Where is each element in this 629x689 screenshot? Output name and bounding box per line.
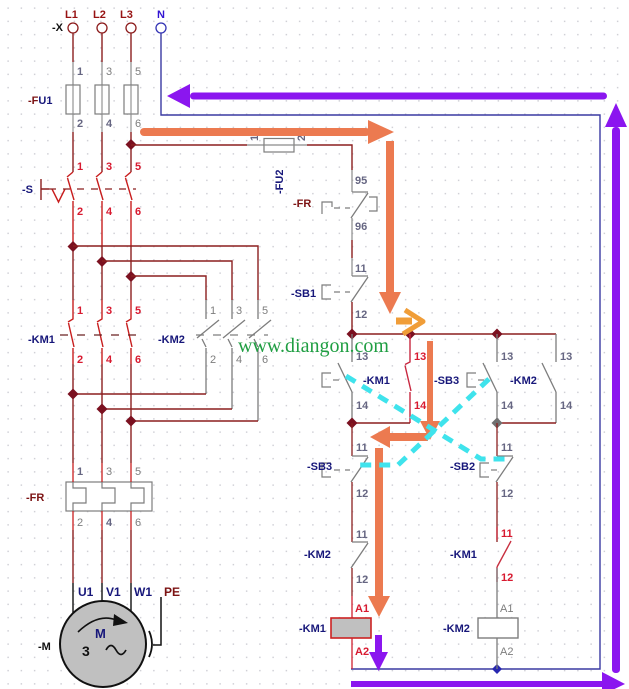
flow arrow orange vertical long [368, 448, 390, 617]
svg-text:6: 6 [135, 517, 141, 529]
contact KM2 aux NC interlock [351, 542, 368, 568]
wire FR to SB1 [351, 218, 353, 240]
svg-text:4: 4 [106, 354, 113, 366]
svg-text:-KM2: -KM2 [304, 549, 331, 561]
contact KM1 aux NC interlock red [497, 527, 511, 582]
terminal L3 [120, 9, 136, 33]
svg-text:96: 96 [355, 221, 367, 233]
terminal N [156, 9, 166, 33]
pushbutton SB3 NC stop [322, 423, 368, 482]
svg-text:-KM2: -KM2 [443, 623, 470, 635]
wire KM1 NC to coil KM2 [496, 568, 498, 618]
switch S handle [41, 179, 65, 202]
wire KM2 pole1 bottom to L1 line [73, 393, 206, 395]
svg-text:1: 1 [210, 305, 216, 317]
svg-text:13: 13 [414, 351, 426, 363]
svg-text:13: 13 [501, 351, 513, 363]
svg-text:-SB2: -SB2 [450, 461, 475, 473]
svg-text:2: 2 [77, 118, 83, 130]
contact KM2 aux NO (13-14) [542, 334, 573, 423]
svg-text:6: 6 [135, 118, 141, 130]
wire L2 terminal to fuse [101, 33, 103, 62]
svg-text:-FR: -FR [26, 492, 44, 504]
wire L3 terminal to fuse [130, 33, 132, 62]
wire PE to motor frame [153, 597, 161, 645]
wire KM2 coil to N line [496, 638, 498, 669]
svg-text:L2: L2 [93, 9, 106, 21]
svg-text:12: 12 [355, 309, 367, 321]
svg-text:A1: A1 [500, 603, 513, 615]
fuse FU1 pole 2 [95, 66, 113, 130]
flow arrow purple right vertical [605, 103, 627, 673]
flow arrow orange vertical upper [379, 141, 401, 314]
node branch to KM2 line L2 [97, 256, 108, 267]
svg-text:A1: A1 [355, 603, 369, 615]
svg-text:-SB1: -SB1 [291, 288, 316, 300]
svg-text:-KM1: -KM1 [28, 334, 55, 346]
node branch to KM2 line L1 [68, 241, 79, 252]
node L2 below KM1 [97, 404, 108, 415]
svg-text:W1: W1 [134, 585, 152, 599]
thermal relay FR pole 1 heater [73, 463, 86, 530]
motor frame earth arc [149, 631, 152, 657]
contactor KM2 main pole 2 open [223, 300, 245, 409]
svg-text:N: N [157, 9, 165, 21]
motor M circle [60, 601, 146, 687]
interlock dashed cyan SB3 cross [354, 379, 489, 465]
svg-text:5: 5 [262, 305, 268, 317]
svg-text:-S: -S [22, 184, 33, 196]
pushbutton SB3 NO start (13-14) [467, 334, 514, 423]
contactor KM1 main pole 2 [97, 300, 113, 366]
node bus KM1 aux [405, 329, 416, 340]
contactor KM2 main pole 3 open [249, 300, 271, 421]
wire bottom of SB2/KM1 pair [352, 422, 410, 424]
svg-text:14: 14 [414, 400, 427, 412]
wire S to KM1 contacts [73, 246, 131, 300]
svg-text:-SB3: -SB3 [434, 375, 459, 387]
coil KM2 [478, 618, 518, 638]
svg-text:L1: L1 [65, 9, 78, 21]
svg-text:4: 4 [106, 517, 113, 529]
svg-text:-FU2: -FU2 [274, 170, 286, 194]
contactor KM2 main pole 1 open [197, 300, 219, 394]
wire L2 branch to KM2 pole 3 top [102, 261, 232, 300]
svg-text:-KM2: -KM2 [510, 375, 537, 387]
svg-text:3: 3 [106, 66, 112, 78]
interlock dashed cyan SB2 cross [346, 376, 506, 459]
wire KM2 NC to coil KM1 [351, 568, 353, 596]
svg-text:3: 3 [82, 643, 90, 659]
node L1 below KM1 [68, 389, 79, 400]
svg-text:6: 6 [135, 206, 141, 218]
wire SB2 to KM1 NC [496, 482, 498, 542]
flow arrow orange horizontal left [370, 426, 428, 448]
contactor KM1 main pole 3 [126, 300, 141, 366]
wire control bus top [352, 333, 556, 335]
terminal L2 [93, 9, 107, 33]
switch S pole 2 [96, 161, 113, 246]
svg-text:1: 1 [77, 161, 83, 173]
svg-text:1: 1 [77, 305, 83, 317]
node bus left [347, 329, 358, 340]
pushbutton SB1 NC [322, 276, 368, 302]
svg-text:3: 3 [106, 305, 112, 317]
svg-text:-KM1: -KM1 [450, 549, 477, 561]
wire KM1 coil to N line [351, 638, 353, 669]
wire fuse to switch S (three phases) [73, 114, 131, 132]
node branch to KM2 line L3 [126, 271, 137, 282]
thermal relay FR box [66, 482, 152, 511]
svg-text:13: 13 [560, 351, 572, 363]
svg-text:-FU1: -FU1 [28, 95, 52, 107]
svg-text:3: 3 [236, 305, 242, 317]
relay contact FR 95-96 NC [322, 192, 377, 218]
fuse FU1 pole 3 [124, 66, 141, 130]
wire KM2 pole3 bottom to L3 line [131, 420, 258, 422]
contactor KM1 linkage dashed [60, 334, 140, 336]
flow arrow purple bottom horizontal [351, 672, 625, 689]
switch S pole 3 [125, 161, 141, 246]
svg-text:4: 4 [106, 206, 113, 218]
svg-text:A2: A2 [355, 646, 369, 658]
svg-text:11: 11 [501, 528, 513, 540]
svg-text:14: 14 [356, 400, 369, 412]
svg-text:5: 5 [135, 161, 141, 173]
svg-text:1: 1 [77, 466, 83, 478]
wire L1 terminal to fuse [72, 33, 74, 62]
node L3 below KM1 [126, 416, 137, 427]
wire FR to motor (three phases) [73, 530, 131, 583]
svg-text:-X: -X [52, 22, 64, 34]
svg-text:2: 2 [77, 354, 83, 366]
wire FU2 to FR contact [307, 145, 352, 170]
thermal relay FR pole 2 heater [102, 463, 115, 530]
svg-text:12: 12 [356, 574, 368, 586]
contact KM1 aux NO closed (13-14) [405, 334, 427, 423]
svg-text:V1: V1 [106, 585, 121, 599]
flow arrow amber chevron right [396, 310, 423, 334]
switch S linkage dashed [49, 188, 136, 190]
svg-text:-KM2: -KM2 [158, 334, 185, 346]
svg-text:14: 14 [501, 400, 514, 412]
switch S pole 1 [67, 161, 83, 246]
svg-text:www.diangon.com: www.diangon.com [238, 335, 389, 357]
motor rotation arrow [78, 618, 116, 632]
node below SB3 gray [492, 418, 503, 429]
wire KM1 bottom to FR (three phases) [73, 364, 131, 463]
wire SB3 to KM2 NC [351, 482, 353, 542]
svg-text:U1: U1 [78, 585, 94, 599]
svg-text:L3: L3 [120, 9, 133, 21]
svg-text:11: 11 [356, 442, 368, 454]
motor tilde symbol [106, 646, 126, 655]
svg-text:5: 5 [135, 66, 141, 78]
svg-text:2: 2 [210, 354, 216, 366]
wire KM2 pole2 bottom to L2 line [102, 408, 232, 410]
svg-text:3: 3 [106, 161, 112, 173]
svg-text:12: 12 [356, 488, 368, 500]
wire L3 branch to KM2 pole 1 top [131, 276, 206, 300]
svg-text:11: 11 [501, 442, 513, 454]
wire L1 branch to KM2 pole 5 top [73, 246, 258, 300]
svg-text:11: 11 [355, 263, 367, 275]
flow arrow purple top horizontal [167, 84, 607, 108]
svg-text:-FR: -FR [293, 198, 311, 210]
svg-text:14: 14 [560, 400, 573, 412]
node bus SB3 [492, 329, 503, 340]
thermal relay FR pole 3 heater [131, 463, 144, 530]
svg-text:M: M [95, 626, 106, 641]
wire neutral N blue run [161, 33, 600, 669]
svg-text:PE: PE [164, 585, 180, 599]
svg-text:1: 1 [77, 66, 83, 78]
flow arrow orange vertical mid [420, 341, 440, 440]
flow arrow orange horizontal top [140, 120, 394, 144]
svg-text:95: 95 [355, 175, 367, 187]
wire L3 tap to fuse FU2 [131, 144, 247, 146]
node blue junction on N bottom wire [492, 664, 502, 674]
terminal L1 [65, 9, 78, 33]
svg-text:4: 4 [106, 118, 113, 130]
node below SB2 [347, 418, 358, 429]
svg-text:2: 2 [77, 206, 83, 218]
contactor KM1 main pole 1 [68, 300, 83, 366]
svg-text:5: 5 [135, 305, 141, 317]
svg-text:12: 12 [501, 572, 513, 584]
coil KM1 [331, 618, 371, 638]
svg-text:-SB3: -SB3 [307, 461, 332, 473]
svg-text:11: 11 [356, 529, 368, 541]
wire bottom of SB3/KM2 pair [497, 422, 556, 424]
svg-text:2: 2 [77, 517, 83, 529]
svg-text:5: 5 [135, 466, 141, 478]
svg-text:12: 12 [501, 488, 513, 500]
svg-text:6: 6 [135, 354, 141, 366]
pushbutton SB2 NO start (13-14) [322, 334, 369, 423]
fuse FU1 pole 1 [66, 66, 83, 130]
svg-text:-KM1: -KM1 [299, 623, 326, 635]
svg-text:-KM1: -KM1 [363, 375, 390, 387]
svg-text:3: 3 [106, 466, 112, 478]
node L3 to control circuit tap [126, 139, 137, 150]
fuse FU2 [247, 135, 308, 152]
contactor KM2 linkage dashed [196, 334, 268, 336]
flow arrow purple down at coil [369, 635, 388, 671]
svg-text:-M: -M [38, 641, 51, 653]
pushbutton SB2 NC stop [480, 423, 513, 482]
wire SB1 to bus [351, 302, 353, 334]
svg-text:A2: A2 [500, 646, 513, 658]
